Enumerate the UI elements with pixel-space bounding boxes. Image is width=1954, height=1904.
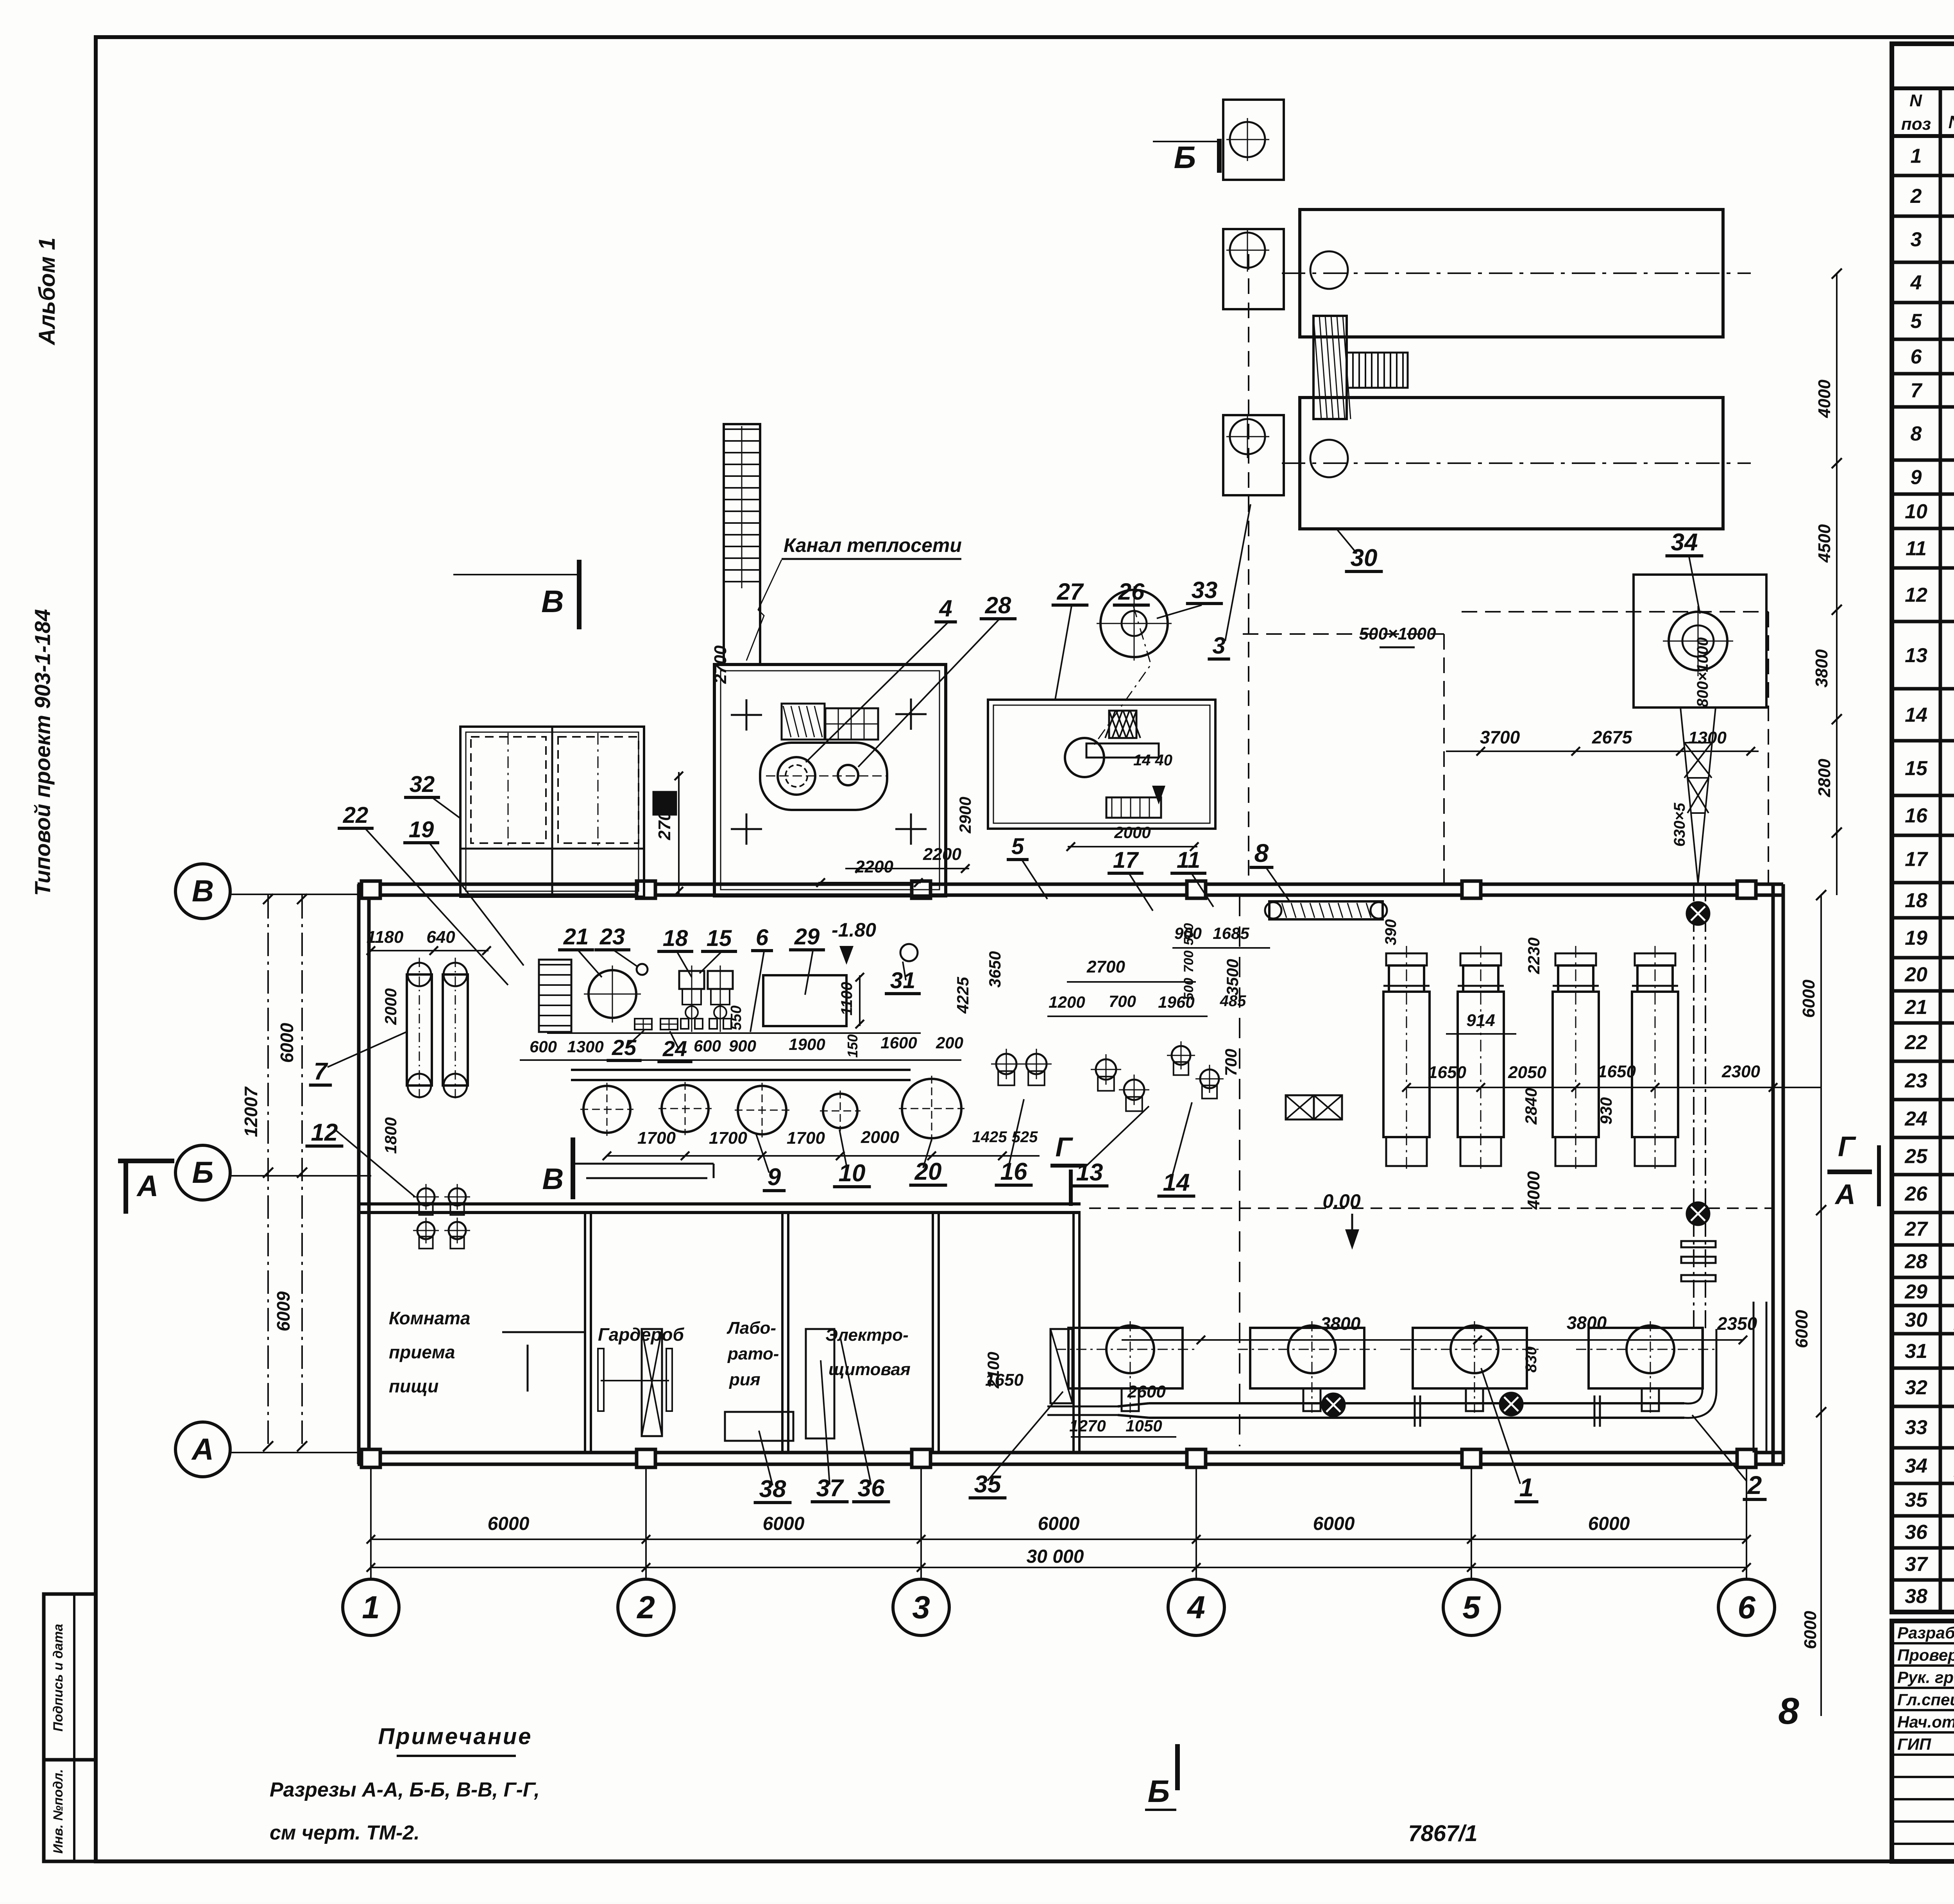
svg-text:12: 12 [1905, 584, 1927, 607]
svg-text:6000: 6000 [1801, 1611, 1820, 1649]
svg-text:32: 32 [1905, 1376, 1927, 1399]
svg-text:N: N [1909, 91, 1922, 110]
svg-text:600: 600 [694, 1037, 721, 1055]
svg-text:1: 1 [1519, 1473, 1534, 1502]
svg-text:рия: рия [729, 1370, 760, 1389]
svg-text:34: 34 [1671, 529, 1698, 556]
svg-text:30: 30 [1351, 545, 1378, 571]
svg-text:29: 29 [1904, 1281, 1927, 1303]
svg-text:1: 1 [362, 1590, 380, 1625]
svg-text:30 000: 30 000 [1027, 1546, 1084, 1567]
svg-text:А: А [136, 1170, 159, 1203]
svg-text:2: 2 [1910, 185, 1922, 208]
svg-text:2: 2 [636, 1590, 655, 1625]
svg-text:10: 10 [839, 1160, 866, 1187]
svg-text:14: 14 [1163, 1169, 1190, 1196]
svg-text:1960: 1960 [1158, 993, 1194, 1011]
svg-text:4: 4 [1910, 272, 1922, 294]
svg-text:640: 640 [426, 928, 455, 947]
svg-text:3800: 3800 [1812, 649, 1831, 688]
svg-text:1270: 1270 [1069, 1417, 1106, 1435]
svg-text:150: 150 [845, 1034, 861, 1058]
svg-text:35: 35 [974, 1471, 1002, 1498]
svg-text:900: 900 [729, 1037, 756, 1055]
svg-text:18: 18 [663, 926, 688, 951]
svg-text:14 40: 14 40 [1133, 752, 1172, 769]
svg-text:31: 31 [890, 968, 916, 993]
svg-text:24: 24 [1904, 1108, 1927, 1130]
svg-text:2700: 2700 [711, 645, 730, 684]
svg-text:23: 23 [1904, 1069, 1927, 1092]
svg-text:27: 27 [1057, 579, 1084, 605]
svg-text:2700: 2700 [1086, 957, 1125, 976]
svg-text:8: 8 [1911, 423, 1922, 445]
svg-text:914: 914 [1466, 1011, 1495, 1030]
svg-text:2000: 2000 [381, 988, 400, 1025]
svg-text:6000: 6000 [1038, 1514, 1080, 1534]
svg-text:Г: Г [1056, 1132, 1074, 1162]
svg-text:27: 27 [1904, 1218, 1928, 1241]
svg-text:7: 7 [314, 1058, 328, 1085]
svg-text:6000: 6000 [1792, 1310, 1811, 1348]
svg-text:19: 19 [409, 817, 434, 842]
svg-text:-1.80: -1.80 [832, 919, 876, 941]
svg-text:1600: 1600 [880, 1033, 917, 1052]
svg-text:Комната: Комната [389, 1308, 471, 1328]
svg-text:6000: 6000 [1313, 1514, 1355, 1534]
svg-text:700: 700 [1222, 1049, 1240, 1076]
svg-text:1650: 1650 [985, 1370, 1024, 1390]
svg-text:31: 31 [1905, 1340, 1927, 1363]
svg-text:2000: 2000 [1114, 823, 1151, 842]
svg-text:4: 4 [1186, 1590, 1205, 1625]
svg-text:щитовая: щитовая [828, 1360, 911, 1379]
svg-text:390: 390 [1382, 919, 1399, 946]
svg-text:приема: приема [389, 1342, 455, 1362]
svg-text:см черт. ТМ-2.: см черт. ТМ-2. [270, 1822, 420, 1844]
svg-text:Примечание: Примечание [378, 1724, 532, 1749]
svg-text:1700: 1700 [709, 1128, 747, 1148]
svg-text:36: 36 [1905, 1521, 1928, 1544]
svg-text:1900: 1900 [789, 1035, 825, 1053]
svg-text:25: 25 [1904, 1145, 1928, 1168]
svg-text:17: 17 [1905, 848, 1928, 871]
svg-text:30: 30 [1905, 1309, 1927, 1331]
svg-text:6: 6 [1911, 346, 1922, 368]
svg-text:33: 33 [1905, 1416, 1927, 1439]
svg-text:Канал теплосети: Канал теплосети [784, 534, 962, 556]
svg-text:3700: 3700 [1480, 727, 1520, 747]
svg-text:7: 7 [1911, 380, 1923, 402]
svg-text:11: 11 [1177, 847, 1200, 873]
svg-text:2900: 2900 [956, 797, 974, 833]
svg-text:6000: 6000 [1799, 980, 1818, 1018]
svg-text:2000: 2000 [861, 1128, 899, 1147]
svg-text:1180: 1180 [367, 928, 404, 947]
svg-text:12: 12 [311, 1119, 338, 1146]
svg-text:23: 23 [599, 924, 625, 949]
svg-text:550: 550 [728, 1005, 744, 1030]
svg-text:5: 5 [1911, 310, 1922, 333]
svg-text:5: 5 [1462, 1590, 1481, 1625]
svg-text:Электро-: Электро- [825, 1325, 909, 1345]
svg-text:А: А [191, 1432, 214, 1466]
svg-text:2800: 2800 [1815, 759, 1834, 797]
svg-text:4: 4 [939, 595, 952, 622]
svg-text:пищи: пищи [389, 1376, 438, 1396]
svg-text:Инв. №подл.: Инв. №подл. [51, 1769, 66, 1854]
svg-text:Нач.отв.: Нач.отв. [1897, 1713, 1954, 1731]
svg-text:3: 3 [912, 1590, 930, 1625]
svg-text:Лабо-: Лабо- [726, 1318, 776, 1338]
svg-text:6000: 6000 [488, 1514, 530, 1534]
svg-text:930: 930 [1597, 1097, 1615, 1125]
svg-text:22: 22 [1904, 1031, 1927, 1054]
svg-text:20: 20 [914, 1158, 942, 1185]
svg-text:1650: 1650 [1428, 1063, 1466, 1082]
svg-text:4500: 4500 [1815, 524, 1834, 563]
svg-text:Разраб.: Разраб. [1897, 1624, 1954, 1642]
svg-text:18: 18 [1905, 889, 1927, 912]
svg-text:14: 14 [1905, 704, 1927, 727]
svg-text:33: 33 [1192, 577, 1218, 603]
svg-text:16: 16 [1000, 1158, 1027, 1185]
svg-text:16: 16 [1905, 804, 1928, 827]
svg-text:6: 6 [756, 925, 769, 950]
svg-text:6000: 6000 [763, 1514, 805, 1534]
svg-text:800×1000: 800×1000 [1694, 637, 1711, 707]
svg-text:7867/1: 7867/1 [1408, 1821, 1477, 1846]
svg-text:600: 600 [530, 1037, 557, 1056]
svg-text:1: 1 [1911, 145, 1922, 168]
svg-text:4225: 4225 [954, 977, 972, 1014]
svg-text:2350: 2350 [1717, 1313, 1757, 1334]
svg-text:2300: 2300 [1721, 1062, 1760, 1081]
svg-text:13: 13 [1905, 644, 1927, 667]
svg-text:№ черт.: № черт. [1948, 112, 1954, 132]
svg-text:26: 26 [1904, 1183, 1928, 1205]
svg-text:3500: 3500 [1223, 959, 1242, 995]
svg-text:10: 10 [1905, 500, 1927, 523]
svg-text:В: В [192, 874, 214, 908]
svg-text:0.00: 0.00 [1322, 1190, 1361, 1212]
svg-text:20: 20 [1904, 964, 1927, 986]
svg-text:1200: 1200 [1049, 993, 1085, 1011]
svg-text:6: 6 [1737, 1590, 1756, 1625]
svg-text:поз: поз [1901, 115, 1931, 134]
svg-text:9: 9 [768, 1164, 781, 1191]
svg-text:4000: 4000 [1815, 380, 1834, 418]
svg-text:2: 2 [1747, 1471, 1762, 1499]
svg-text:6000: 6000 [277, 1023, 297, 1063]
svg-text:Провер.: Провер. [1897, 1646, 1954, 1664]
svg-text:2230: 2230 [1525, 937, 1543, 974]
svg-text:1650: 1650 [1598, 1062, 1636, 1081]
svg-text:Альбом 1: Альбом 1 [34, 237, 60, 346]
svg-text:4000: 4000 [1524, 1171, 1543, 1210]
svg-text:рато-: рато- [727, 1344, 779, 1363]
svg-text:8: 8 [1254, 838, 1269, 867]
svg-text:Б: Б [1148, 1774, 1170, 1809]
svg-text:1300: 1300 [1688, 728, 1727, 747]
svg-text:32: 32 [410, 772, 435, 797]
svg-text:21: 21 [563, 924, 589, 949]
svg-text:17: 17 [1113, 847, 1139, 873]
svg-text:22: 22 [343, 802, 369, 828]
svg-text:700: 700 [1181, 951, 1196, 973]
svg-text:38: 38 [759, 1476, 786, 1503]
svg-text:485: 485 [1220, 992, 1246, 1010]
svg-text:3650: 3650 [986, 951, 1004, 987]
svg-text:Г: Г [1838, 1131, 1856, 1162]
svg-text:6009: 6009 [273, 1291, 293, 1331]
svg-text:А: А [1834, 1179, 1856, 1210]
svg-text:В: В [542, 1162, 564, 1196]
svg-text:8: 8 [1778, 1690, 1799, 1732]
svg-text:500: 500 [1181, 923, 1196, 946]
svg-text:ГИП: ГИП [1897, 1735, 1931, 1754]
svg-text:1300: 1300 [567, 1037, 603, 1056]
svg-text:3800: 3800 [1567, 1313, 1607, 1333]
svg-text:28: 28 [985, 592, 1011, 618]
svg-text:830: 830 [1523, 1347, 1540, 1373]
svg-text:1050: 1050 [1126, 1417, 1162, 1435]
svg-text:2600: 2600 [1127, 1382, 1166, 1401]
svg-text:12007: 12007 [241, 1086, 261, 1137]
svg-text:Подпись и дата: Подпись и дата [51, 1624, 66, 1732]
svg-text:19: 19 [1905, 927, 1927, 949]
svg-text:29: 29 [794, 924, 820, 949]
svg-text:630×5: 630×5 [1671, 802, 1688, 847]
svg-text:28: 28 [1904, 1250, 1927, 1273]
svg-text:Типовой проект 903-1-184: Типовой проект 903-1-184 [30, 609, 55, 896]
svg-text:1100: 1100 [838, 982, 855, 1016]
svg-text:9: 9 [1911, 466, 1922, 489]
svg-text:1700: 1700 [787, 1128, 825, 1148]
svg-text:25: 25 [612, 1035, 637, 1060]
svg-text:Рук. гр.: Рук. гр. [1897, 1668, 1954, 1687]
svg-text:1685: 1685 [1213, 924, 1249, 942]
svg-text:6000: 6000 [1588, 1514, 1630, 1534]
svg-text:Б: Б [192, 1155, 213, 1189]
svg-text:3800: 3800 [1321, 1313, 1361, 1334]
svg-text:36: 36 [858, 1475, 885, 1502]
svg-text:37: 37 [816, 1475, 844, 1502]
svg-text:В: В [541, 584, 564, 619]
svg-text:5: 5 [1011, 834, 1024, 859]
svg-text:Б: Б [1174, 140, 1196, 175]
svg-text:38: 38 [1905, 1585, 1927, 1608]
svg-text:15: 15 [1905, 757, 1928, 780]
svg-text:2200: 2200 [923, 845, 961, 864]
svg-text:Разрезы А-А, Б-Б, В-В, Г-Г: Разрезы А-А, Б-Б, В-В, Г-Г, [270, 1779, 540, 1801]
svg-text:1800: 1800 [381, 1117, 400, 1154]
svg-text:2675: 2675 [1592, 727, 1633, 747]
svg-text:15: 15 [707, 926, 732, 951]
svg-text:2050: 2050 [1508, 1063, 1546, 1082]
svg-text:700: 700 [1109, 992, 1136, 1010]
svg-text:Гл.спец.: Гл.спец. [1897, 1691, 1954, 1709]
svg-text:35: 35 [1905, 1489, 1928, 1512]
svg-text:11: 11 [1906, 537, 1927, 560]
svg-text:3: 3 [1212, 632, 1225, 659]
svg-text:21: 21 [1904, 996, 1927, 1019]
svg-text:2840: 2840 [1522, 1088, 1540, 1125]
svg-text:1700: 1700 [637, 1128, 676, 1148]
svg-text:200: 200 [936, 1033, 963, 1052]
svg-text:3: 3 [1911, 228, 1922, 251]
svg-text:34: 34 [1905, 1455, 1927, 1478]
svg-text:37: 37 [1905, 1553, 1928, 1576]
svg-text:1425: 1425 [972, 1128, 1007, 1146]
